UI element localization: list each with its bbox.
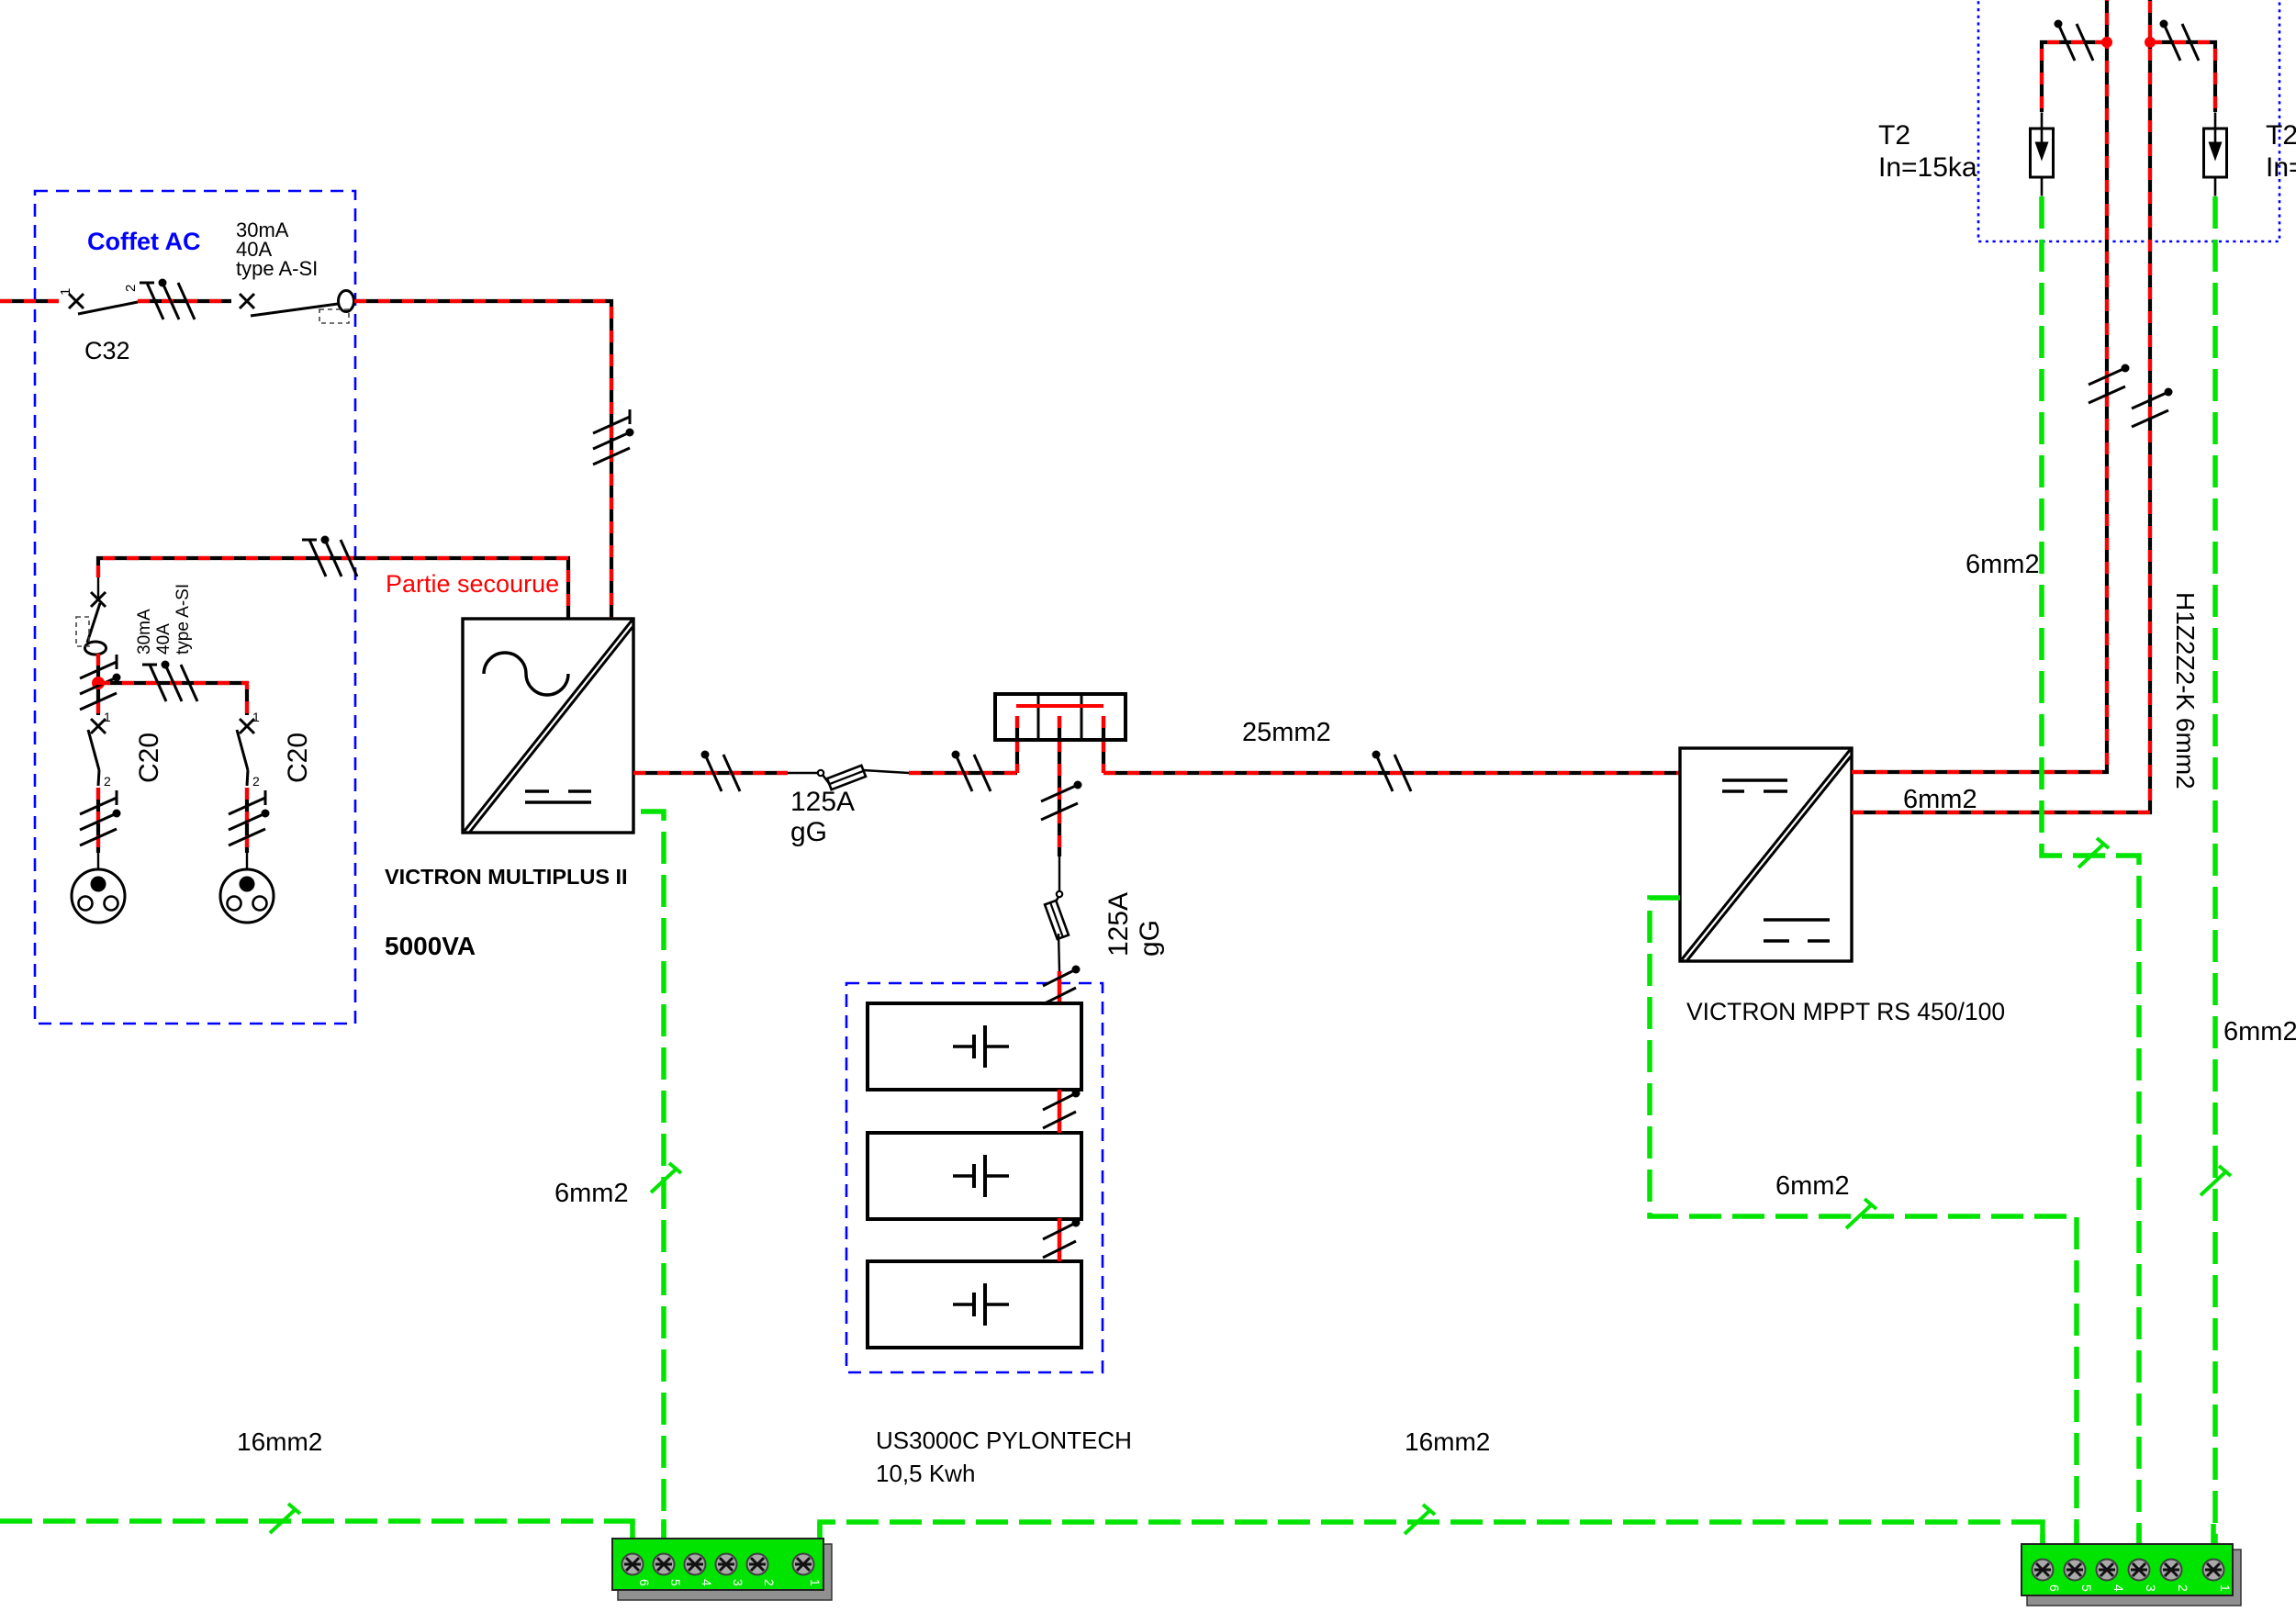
battery cell 3 US3000C — [868, 1261, 1081, 1348]
svg-text:Coffet AC: Coffet AC — [87, 228, 200, 255]
disconnect 3-pole on vertical AC feed — [593, 409, 634, 465]
battery inter-link 2 — [1058, 1218, 1062, 1261]
svg-text:25mm2: 25mm2 — [1242, 718, 1331, 747]
svg-text:T2: T2 — [1878, 120, 1910, 151]
earth break symbols — [270, 1504, 300, 1533]
svg-text:1: 1 — [808, 1579, 823, 1586]
socket outlet #1 — [72, 869, 125, 923]
inverter U1 VICTRON MULTIPLUS II box — [463, 619, 633, 833]
enclosure box battery bank — [846, 983, 1103, 1372]
RCD 2 contact — [97, 577, 99, 598]
svg-text:2: 2 — [104, 774, 111, 789]
wire fuse to busbar — [909, 771, 1017, 775]
earth wire inverter to bar — [641, 811, 664, 1539]
svg-text:3: 3 — [2144, 1584, 2158, 1592]
RCD 2 dashed box — [76, 617, 89, 646]
charge controller U2 VICTRON MPPT RS box — [1680, 748, 1852, 961]
svg-text:2: 2 — [252, 774, 260, 789]
RCD blade — [251, 304, 338, 316]
disconnect DC inverter side — [701, 751, 741, 792]
earth wire main horizontal left — [0, 1521, 633, 1539]
breaker C20 #2 blade — [237, 730, 248, 770]
svg-text:40A: 40A — [154, 623, 174, 655]
breaker C20 #1 blade — [88, 730, 99, 770]
wire SPD branch 2 — [2150, 42, 2215, 112]
earth terminal bar at 667,1676 — [612, 1539, 832, 1600]
disconnect 3-pole below C20 #2 — [229, 790, 270, 845]
svg-text:T2: T2 — [2266, 120, 2296, 151]
svg-text:VICTRON MULTIPLUS II: VICTRON MULTIPLUS II — [385, 865, 628, 889]
wire below breaker C20 #2 — [245, 788, 249, 853]
svg-text:VICTRON MPPT RS 450/100: VICTRON MPPT RS 450/100 — [1686, 998, 2005, 1025]
RCD linkage dashed box — [319, 309, 349, 323]
socket outlet #2 — [220, 869, 274, 923]
wire PV string 1 — [1852, 0, 2107, 772]
wire PV string 2 — [1852, 0, 2150, 812]
surge arrester T2 at x=2224 — [2031, 113, 2054, 196]
surge arrester T2 at x=2413 — [2204, 113, 2227, 196]
battery cell 2 US3000C — [868, 1133, 1081, 1219]
wire — [138, 299, 231, 303]
wire below breaker C20 #1 — [96, 788, 100, 853]
svg-text:US3000C PYLONTECH: US3000C PYLONTECH — [876, 1427, 1132, 1454]
svg-text:6mm2: 6mm2 — [1775, 1171, 1850, 1201]
svg-text:6mm2: 6mm2 — [2223, 1017, 2296, 1047]
battery cell 1 US3000C — [868, 1003, 1081, 1090]
svg-text:type A-SI: type A-SI — [236, 257, 318, 280]
svg-text:C20: C20 — [283, 733, 313, 783]
wire SPD branch 1 — [2042, 42, 2107, 112]
RCD 30mA contact — [240, 294, 254, 308]
enclosure box Coffet AC — [35, 191, 355, 1024]
svg-text:1: 1 — [252, 710, 260, 724]
lead to socket #1 — [97, 853, 99, 869]
busbar block — [995, 694, 1126, 740]
breaker C32 contact 1 — [69, 294, 84, 308]
svg-text:30mA: 30mA — [135, 609, 154, 655]
svg-text:1: 1 — [2218, 1584, 2233, 1592]
svg-text:5000VA: 5000VA — [385, 932, 476, 960]
earth wire SPD2 down — [2212, 196, 2218, 1544]
RCD 2 blade — [87, 603, 100, 643]
earth terminal bar at 2202,1682 — [2022, 1544, 2241, 1606]
svg-text:125A: 125A — [1103, 892, 1134, 957]
svg-text:C32: C32 — [84, 337, 130, 364]
svg-text:C20: C20 — [134, 733, 164, 783]
disconnect PV string 2 — [2132, 388, 2173, 428]
disconnect on 25mm2 run — [1372, 751, 1412, 792]
svg-text:4: 4 — [700, 1579, 714, 1586]
earth wire SPD1 down — [2042, 196, 2139, 1544]
RCD 2 coil ellipse — [85, 642, 106, 655]
wire busbar to MPPT — [1103, 771, 1680, 775]
node PV2 junction — [2145, 37, 2156, 48]
fuse F1 125A gG — [788, 772, 818, 774]
earth wire solid stubs at bars — [633, 1519, 2213, 1546]
disconnect 3-pole below C20 #1 — [80, 790, 121, 845]
junction node secourue — [92, 677, 105, 689]
wire branch to second C20 — [98, 683, 247, 715]
wire AC mains input — [0, 299, 59, 303]
svg-text:gG: gG — [1135, 920, 1165, 957]
busbar terminal stubs — [1015, 716, 1019, 773]
svg-text:5: 5 — [668, 1579, 683, 1586]
svg-text:5: 5 — [2079, 1584, 2094, 1592]
svg-text:6: 6 — [637, 1579, 652, 1586]
wire DC from inverter — [633, 771, 788, 775]
svg-text:1: 1 — [58, 288, 73, 296]
wire AC to inverter — [354, 301, 611, 619]
svg-text:4: 4 — [2111, 1584, 2126, 1592]
disconnect 3-pole secourue — [302, 536, 357, 577]
breaker C32 blade — [78, 302, 138, 314]
disconnect before busbar — [952, 751, 991, 792]
breaker C20 #2 contact 1 — [240, 719, 254, 733]
wire below RCD2 — [96, 654, 100, 715]
svg-text:6mm2: 6mm2 — [554, 1179, 629, 1208]
svg-text:2: 2 — [123, 285, 139, 292]
battery entry link — [1058, 971, 1062, 1003]
svg-text:16mm2: 16mm2 — [237, 1427, 322, 1456]
svg-text:2: 2 — [2176, 1584, 2190, 1592]
disconnect 3-pole vertical chain1 — [80, 655, 121, 710]
svg-text:1: 1 — [104, 710, 111, 724]
enclosure box PV surge protection (blue dotted) — [1978, 0, 2279, 241]
svg-text:16mm2: 16mm2 — [1405, 1427, 1490, 1456]
svg-text:H1Z2Z2-K 6mm2: H1Z2Z2-K 6mm2 — [2171, 592, 2200, 789]
earth wire bar to bar — [820, 1522, 2043, 1544]
svg-text:6: 6 — [2047, 1584, 2062, 1592]
node PV1 junction — [2101, 37, 2112, 48]
svg-text:125A: 125A — [790, 787, 855, 817]
wire partie secourue horizontal — [98, 558, 568, 619]
svg-text:Partie secourue: Partie secourue — [386, 570, 559, 598]
svg-text:6mm2: 6mm2 — [1966, 550, 2040, 579]
disconnect 3-pole branch — [142, 661, 197, 702]
RCD coil ellipse — [339, 291, 354, 312]
svg-text:6mm2: 6mm2 — [1903, 785, 1977, 814]
earth wire MPPT left — [1650, 898, 2077, 1544]
disconnect 3-pole on AC line — [140, 279, 195, 320]
lead to socket #2 — [246, 853, 248, 869]
svg-text:gG: gG — [790, 817, 827, 847]
svg-text:In=15ka: In=15ka — [2266, 152, 2296, 183]
svg-text:10,5 Kwh: 10,5 Kwh — [876, 1460, 975, 1487]
disconnect below busbar — [1041, 781, 1082, 821]
svg-text:In=15ka: In=15ka — [1878, 152, 1977, 183]
svg-text:3: 3 — [731, 1579, 745, 1586]
svg-text:type A-SI: type A-SI — [174, 584, 193, 655]
disconnect PV string 1 — [2089, 364, 2130, 404]
svg-text:2: 2 — [762, 1579, 777, 1586]
breaker C20 #1 contact 1 — [91, 719, 106, 733]
battery inter-link 1 — [1058, 1090, 1062, 1133]
fuse F2 125A gG battery — [1058, 856, 1060, 891]
